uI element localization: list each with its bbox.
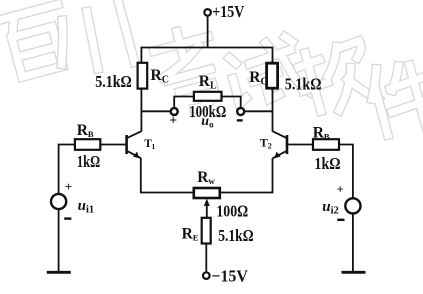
resistor RL xyxy=(194,92,222,101)
svg-text:5.1kΩ: 5.1kΩ xyxy=(285,74,322,93)
svg-text:ui1: ui1 xyxy=(78,198,95,215)
wire RB left to source xyxy=(59,145,75,195)
potentiometer RW xyxy=(194,188,220,198)
wire output tap right xyxy=(244,110,272,112)
svg-text:T1: T1 xyxy=(144,138,155,151)
ground right xyxy=(342,271,366,274)
svg-text:RE: RE xyxy=(182,226,199,243)
wire base T2 xyxy=(288,144,313,146)
wire left collector xyxy=(140,89,142,132)
label - output xyxy=(237,119,243,121)
svg-text:+: + xyxy=(169,113,177,128)
resistor RB left xyxy=(75,139,100,150)
svg-text:T2: T2 xyxy=(260,136,272,151)
svg-text:5.1kΩ: 5.1kΩ xyxy=(95,72,132,91)
wire output tap left xyxy=(141,110,170,112)
T1 emitter arrow xyxy=(133,151,140,158)
ground left xyxy=(47,271,71,274)
wire RE to -15V xyxy=(205,244,207,273)
svg-text:RL: RL xyxy=(199,73,217,92)
label - ui1 xyxy=(64,217,71,219)
svg-text:5.1kΩ: 5.1kΩ xyxy=(218,226,253,245)
watermark 件 xyxy=(365,53,423,143)
T2 emitter arrow xyxy=(273,151,280,158)
+15V supply terminal xyxy=(204,9,211,16)
watermark 川 xyxy=(49,0,134,80)
node output - terminal xyxy=(237,108,244,115)
wire RL right lead xyxy=(222,97,241,109)
wire RB right to source xyxy=(339,145,353,199)
wire T1 emitter down xyxy=(141,158,194,193)
resistor RB right xyxy=(313,139,339,150)
wiper wire xyxy=(206,203,208,218)
source ui1 xyxy=(51,194,66,209)
svg-text:−15V: −15V xyxy=(211,267,248,286)
svg-text:ui2: ui2 xyxy=(322,199,339,216)
wire base T1 xyxy=(100,144,125,146)
svg-text:1kΩ: 1kΩ xyxy=(77,152,100,171)
svg-text:RB: RB xyxy=(313,124,330,141)
wire top rail xyxy=(141,48,272,64)
resistor RC left xyxy=(138,63,148,89)
watermark 软 xyxy=(294,38,379,118)
svg-text:1kΩ: 1kΩ xyxy=(314,154,340,173)
watermark 试 xyxy=(226,34,310,110)
svg-text:Rw: Rw xyxy=(197,169,215,186)
svg-text:+: + xyxy=(65,180,72,194)
wiper arrow xyxy=(204,198,210,206)
wire T2 emitter down xyxy=(220,158,273,193)
svg-text:RC: RC xyxy=(151,67,169,86)
transistor T2 xyxy=(273,131,288,158)
-15V terminal xyxy=(203,272,210,279)
watermark 百 xyxy=(0,4,73,80)
wire source to ground left xyxy=(58,209,60,271)
svg-text:RC: RC xyxy=(249,69,267,88)
wire supply drop xyxy=(207,16,209,48)
wire source to ground right xyxy=(352,214,354,272)
resistor RC right xyxy=(267,63,278,88)
wire RL left lead xyxy=(174,97,194,109)
svg-text:RB: RB xyxy=(77,122,94,139)
svg-text:100Ω: 100Ω xyxy=(216,201,248,220)
resistor RE xyxy=(202,218,211,244)
source ui2 xyxy=(345,198,360,213)
watermark 考 xyxy=(151,24,226,115)
node output + terminal xyxy=(171,108,178,115)
transistor T1 xyxy=(127,131,142,158)
svg-text:+15V: +15V xyxy=(212,2,245,21)
wire right collector xyxy=(272,88,274,131)
label - ui2 xyxy=(337,219,344,221)
svg-text:+: + xyxy=(337,182,344,196)
